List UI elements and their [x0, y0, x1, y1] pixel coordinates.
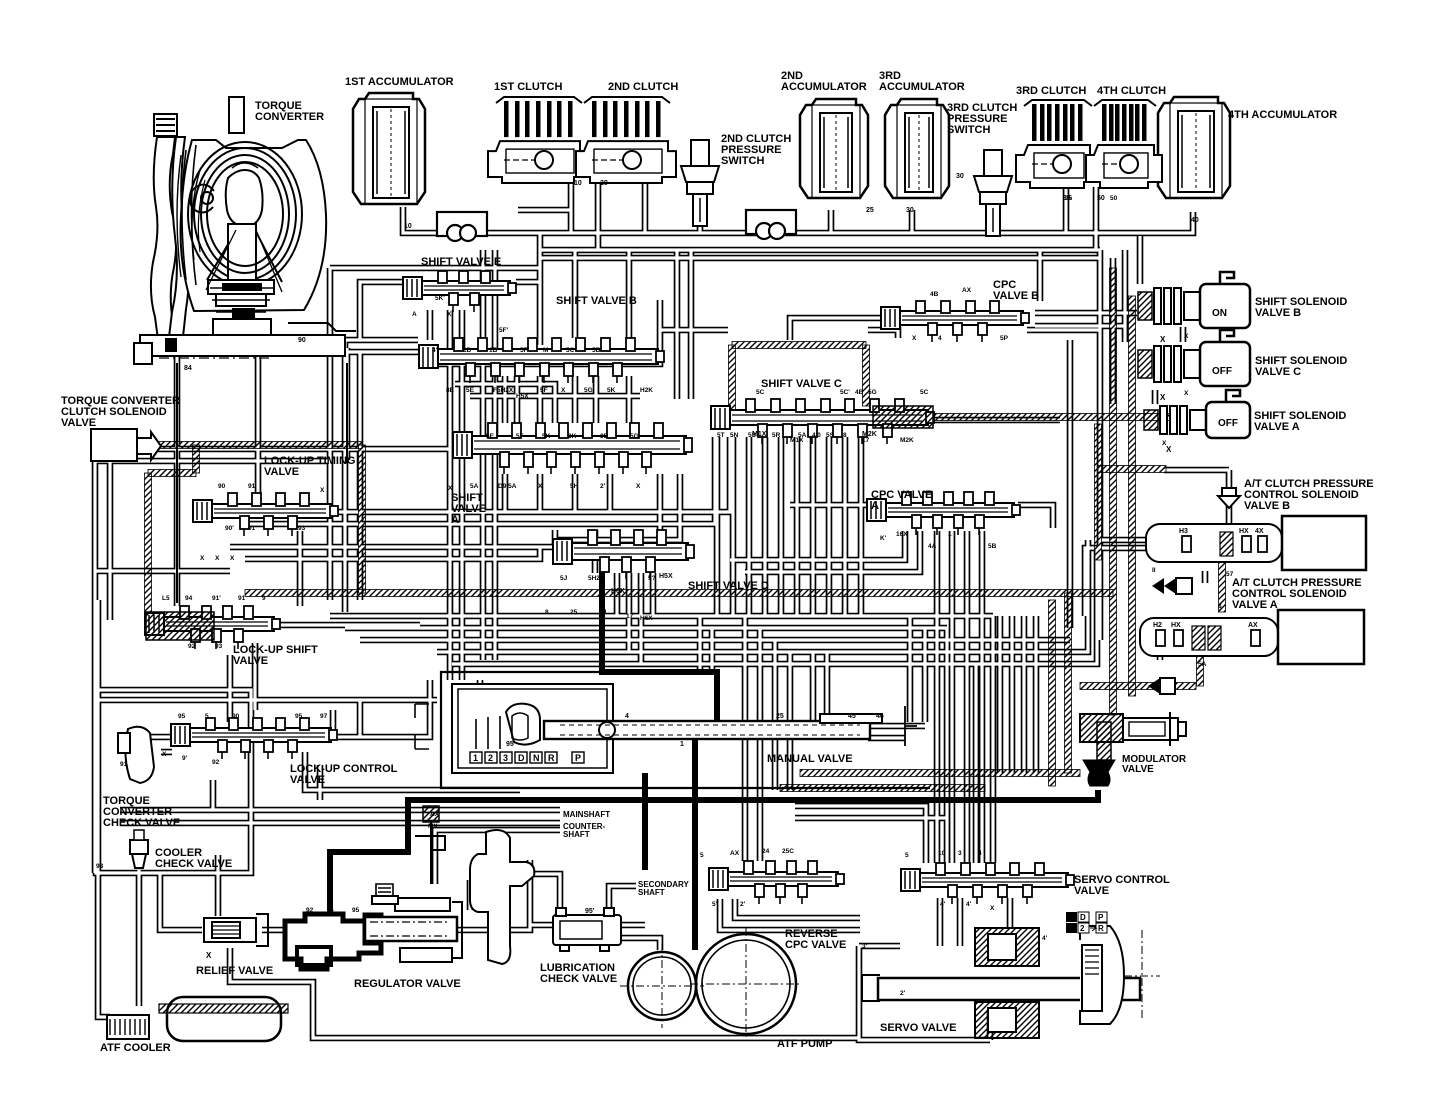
svg-text:R: R	[1098, 924, 1104, 933]
svg-text:25: 25	[776, 713, 784, 720]
svg-text:5N: 5N	[730, 432, 739, 439]
svg-text:ON: ON	[1212, 308, 1227, 319]
svg-text:AX: AX	[430, 811, 440, 818]
svg-text:5C: 5C	[920, 389, 929, 396]
svg-text:AX: AX	[1248, 622, 1258, 629]
svg-text:2': 2'	[740, 901, 746, 908]
svg-text:25C: 25C	[782, 848, 794, 855]
svg-text:2: 2	[488, 753, 493, 763]
svg-text:2': 2'	[900, 990, 906, 997]
svg-text:5R: 5R	[772, 432, 781, 439]
svg-text:2: 2	[1080, 924, 1085, 933]
svg-text:5F: 5F	[516, 433, 524, 440]
svg-text:SHIFT VALVE E: SHIFT VALVE E	[421, 256, 501, 268]
svg-text:5H: 5H	[570, 483, 579, 490]
svg-text:40: 40	[1191, 217, 1199, 224]
svg-text:8: 8	[1218, 603, 1222, 610]
svg-text:4B: 4B	[930, 291, 939, 298]
svg-text:CHECK VALVE: CHECK VALVE	[540, 973, 617, 985]
svg-text:41: 41	[600, 609, 608, 616]
svg-text:84: 84	[184, 365, 192, 372]
svg-text:35: 35	[1063, 195, 1071, 202]
svg-text:3: 3	[958, 850, 962, 857]
svg-text:5: 5	[205, 713, 209, 720]
svg-text:57: 57	[1226, 571, 1234, 578]
svg-text:5K': 5K'	[435, 295, 445, 302]
svg-text:1D: 1D	[463, 347, 472, 354]
svg-text:X: X	[200, 555, 205, 562]
svg-text:1: 1	[948, 531, 952, 538]
svg-text:2: 2	[1068, 913, 1073, 922]
svg-text:X: X	[162, 751, 167, 758]
svg-text:4A: 4A	[928, 543, 937, 550]
svg-text:17: 17	[862, 437, 870, 444]
svg-text:D: D	[1080, 913, 1086, 922]
svg-text:5F': 5F'	[520, 347, 530, 354]
svg-text:OFF: OFF	[1212, 366, 1232, 377]
svg-text:D9 5A: D9 5A	[498, 483, 517, 490]
svg-text:D: D	[518, 753, 525, 763]
svg-text:3': 3'	[862, 943, 868, 950]
svg-text:1: 1	[1068, 924, 1073, 933]
svg-text:5': 5'	[712, 901, 718, 908]
svg-text:X: X	[1162, 440, 1167, 447]
svg-text:VALVE: VALVE	[233, 655, 268, 667]
svg-text:45: 45	[848, 713, 856, 720]
svg-text:4': 4'	[940, 901, 946, 908]
svg-text:OFF: OFF	[1218, 418, 1238, 429]
svg-text:M: M	[543, 347, 548, 354]
svg-text:93: 93	[96, 863, 104, 870]
svg-text:H6X: H6X	[611, 588, 625, 595]
svg-text:H6X: H6X	[640, 615, 653, 622]
svg-text:VALVE: VALVE	[264, 466, 299, 478]
svg-text:95: 95	[352, 907, 360, 914]
svg-text:4TH CLUTCH: 4TH CLUTCH	[1097, 85, 1166, 97]
svg-text:93: 93	[298, 525, 306, 532]
svg-text:5: 5	[330, 907, 334, 914]
svg-text:MAINSHAFT: MAINSHAFT	[563, 810, 610, 819]
svg-text:9': 9'	[182, 755, 188, 762]
svg-text:5C: 5C	[566, 347, 575, 354]
svg-text:H2: H2	[1153, 622, 1162, 629]
svg-text:X: X	[215, 555, 220, 562]
svg-text:94: 94	[185, 595, 193, 602]
svg-text:X: X	[990, 905, 995, 912]
svg-text:SHAFT: SHAFT	[563, 830, 590, 839]
svg-text:25: 25	[866, 207, 874, 214]
svg-text:4: 4	[625, 713, 629, 720]
svg-text:10: 10	[574, 180, 582, 187]
svg-text:97: 97	[320, 713, 328, 720]
svg-text:ATF COOLER: ATF COOLER	[100, 1042, 171, 1054]
svg-text:4B: 4B	[855, 389, 864, 396]
svg-text:5A: 5A	[470, 483, 479, 490]
svg-text:SHAFT: SHAFT	[638, 888, 665, 897]
svg-text:M2K: M2K	[900, 437, 914, 444]
svg-text:SHIFT VALVE C: SHIFT VALVE C	[761, 378, 842, 390]
svg-text:8: 8	[545, 609, 549, 616]
svg-text:93: 93	[215, 643, 223, 650]
svg-text:4': 4'	[966, 901, 972, 908]
svg-text:46: 46	[876, 713, 884, 720]
svg-text:50: 50	[1110, 195, 1118, 202]
svg-text:VALVE B: VALVE B	[993, 290, 1039, 302]
svg-text:H5X: H5X	[516, 393, 529, 400]
svg-text:5G: 5G	[584, 387, 593, 394]
svg-text:4': 4'	[1042, 935, 1048, 942]
svg-text:5B: 5B	[988, 543, 997, 550]
svg-text:VALVE: VALVE	[1122, 764, 1154, 775]
svg-text:M2K: M2K	[862, 431, 877, 438]
svg-text:95: 95	[178, 713, 186, 720]
svg-text:N: N	[533, 753, 540, 763]
svg-text:16X: 16X	[896, 531, 908, 538]
svg-text:X: X	[1184, 390, 1189, 397]
svg-text:X: X	[538, 483, 543, 490]
svg-text:X: X	[448, 485, 453, 492]
svg-text:24: 24	[762, 848, 770, 855]
svg-text:X: X	[1184, 333, 1189, 340]
svg-text:H5X: H5X	[659, 573, 673, 580]
svg-text:3D: 3D	[600, 433, 609, 440]
svg-text:90: 90	[218, 483, 226, 490]
svg-text:SERVO VALVE: SERVO VALVE	[880, 1022, 956, 1034]
svg-text:L5: L5	[162, 595, 170, 602]
svg-text:5C: 5C	[756, 389, 765, 396]
svg-text:CHECK VALVE: CHECK VALVE	[103, 817, 180, 829]
svg-text:3: 3	[503, 753, 508, 763]
svg-text:CPC VALVE: CPC VALVE	[871, 489, 932, 501]
svg-text:90': 90'	[225, 525, 234, 532]
svg-text:ATF PUMP: ATF PUMP	[777, 1038, 832, 1050]
svg-text:AX: AX	[962, 287, 972, 294]
svg-text:91': 91'	[248, 525, 257, 532]
svg-text:91: 91	[238, 595, 246, 602]
svg-text:X: X	[1160, 393, 1166, 402]
svg-text:VALVE: VALVE	[290, 774, 325, 786]
svg-text:5A: 5A	[798, 432, 807, 439]
svg-text:M1X: M1X	[752, 431, 767, 438]
svg-text:91': 91'	[212, 595, 221, 602]
svg-text:4': 4'	[432, 347, 438, 354]
svg-text:5A: 5A	[1198, 661, 1207, 668]
svg-text:17: 17	[626, 613, 634, 620]
svg-text:P: P	[575, 753, 581, 763]
svg-text:VALVE C: VALVE C	[1255, 366, 1301, 378]
svg-text:91: 91	[120, 761, 128, 768]
svg-text:CONVERTER: CONVERTER	[255, 111, 324, 123]
svg-text:REGULATOR VALVE: REGULATOR VALVE	[354, 978, 461, 990]
svg-text:9: 9	[262, 595, 266, 602]
svg-text:1ST ACCUMULATOR: 1ST ACCUMULATOR	[345, 76, 454, 88]
svg-text:X: X	[230, 555, 235, 562]
svg-text:ACCUMULATOR: ACCUMULATOR	[879, 81, 965, 93]
svg-text:HX: HX	[1171, 622, 1181, 629]
svg-text:4TH ACCUMULATOR: 4TH ACCUMULATOR	[1228, 109, 1337, 121]
svg-text:5E: 5E	[466, 387, 475, 394]
svg-text:VALVE: VALVE	[61, 417, 96, 429]
svg-text:50: 50	[1097, 195, 1105, 202]
svg-text:1: 1	[473, 753, 478, 763]
svg-text:90: 90	[298, 337, 306, 344]
svg-text:SHIFT VALVE D: SHIFT VALVE D	[688, 580, 769, 592]
svg-text:VALVE: VALVE	[1074, 885, 1109, 897]
svg-text:5G: 5G	[630, 433, 639, 440]
svg-text:VALVE B: VALVE B	[1244, 500, 1290, 512]
svg-text:5K: 5K	[607, 387, 616, 394]
svg-text:ACCUMULATOR: ACCUMULATOR	[781, 81, 867, 93]
svg-text:CPC VALVE: CPC VALVE	[785, 939, 846, 951]
svg-text:2K: 2K	[568, 433, 577, 440]
svg-text:10: 10	[404, 223, 412, 230]
svg-text:92: 92	[306, 907, 314, 914]
svg-text:R: R	[548, 753, 555, 763]
svg-text:92: 92	[212, 759, 220, 766]
svg-text:F5H2X: F5H2X	[493, 387, 514, 394]
svg-text:92: 92	[188, 643, 196, 650]
svg-text:CHECK VALVE: CHECK VALVE	[155, 858, 232, 870]
svg-text:20: 20	[600, 180, 608, 187]
svg-text:5E: 5E	[486, 433, 495, 440]
svg-text:4'0: 4'0	[812, 432, 821, 439]
svg-text:5H2: 5H2	[588, 575, 600, 582]
svg-text:VALVE B: VALVE B	[1255, 307, 1301, 319]
svg-text:5F': 5F'	[499, 327, 509, 334]
svg-text:5C': 5C'	[840, 389, 850, 396]
svg-text:5T: 5T	[717, 432, 725, 439]
svg-text:95': 95'	[506, 741, 516, 748]
svg-text:X: X	[561, 387, 566, 394]
svg-text:X: X	[447, 311, 452, 318]
svg-text:1: 1	[680, 741, 684, 748]
svg-text:5S: 5S	[826, 432, 835, 439]
svg-text:X: X	[912, 335, 917, 342]
svg-text:5?: 5?	[648, 575, 656, 582]
svg-text:30: 30	[956, 173, 964, 180]
svg-text:1ST CLUTCH: 1ST CLUTCH	[494, 81, 563, 93]
svg-text:A: A	[412, 311, 417, 318]
svg-text:MX: MX	[428, 823, 438, 830]
svg-text:A: A	[871, 500, 879, 512]
svg-text:5: 5	[905, 852, 909, 859]
svg-text:5P: 5P	[1000, 335, 1009, 342]
svg-text:X: X	[636, 483, 641, 490]
svg-text:A: A	[451, 514, 459, 526]
svg-text:5K: 5K	[542, 433, 551, 440]
svg-text:AX: AX	[730, 850, 740, 857]
svg-text:P: P	[1098, 913, 1104, 922]
svg-text:1B: 1B	[489, 347, 498, 354]
svg-text:25: 25	[570, 609, 578, 616]
svg-text:2': 2'	[600, 483, 606, 490]
svg-text:VALVE A: VALVE A	[1254, 421, 1300, 433]
svg-text:5F: 5F	[540, 387, 548, 394]
svg-text:91: 91	[248, 483, 256, 490]
svg-text:95: 95	[295, 713, 303, 720]
svg-text:90: 90	[232, 713, 240, 720]
svg-text:3RD CLUTCH: 3RD CLUTCH	[1016, 85, 1086, 97]
svg-text:X: X	[1166, 445, 1172, 454]
svg-text:30: 30	[906, 207, 914, 214]
svg-text:MANUAL VALVE: MANUAL VALVE	[767, 753, 853, 765]
svg-text:4: 4	[938, 335, 942, 342]
svg-text:X: X	[320, 487, 325, 494]
svg-text:H3: H3	[1179, 528, 1188, 535]
svg-text:SWITCH: SWITCH	[721, 155, 764, 167]
svg-text:2ND CLUTCH: 2ND CLUTCH	[608, 81, 678, 93]
svg-text:X: X	[206, 951, 212, 960]
svg-text:8E: 8E	[446, 387, 455, 394]
svg-text:4X: 4X	[1255, 528, 1264, 535]
svg-text:X: X	[1160, 335, 1166, 344]
svg-text:5: 5	[700, 852, 704, 859]
svg-text:95': 95'	[585, 908, 595, 915]
svg-text:HX: HX	[1239, 528, 1249, 535]
svg-text:II: II	[1152, 567, 1156, 574]
svg-text:H2K: H2K	[640, 387, 653, 394]
svg-text:5J: 5J	[560, 575, 568, 582]
svg-text:SHIFT VALVE B: SHIFT VALVE B	[556, 295, 637, 307]
svg-text:10: 10	[938, 850, 946, 857]
svg-text:4: 4	[978, 850, 982, 857]
svg-text:RELIEF VALVE: RELIEF VALVE	[196, 965, 273, 977]
svg-text:5B: 5B	[592, 347, 601, 354]
svg-text:VALVE A: VALVE A	[1232, 599, 1278, 611]
svg-text:8: 8	[843, 432, 847, 439]
svg-text:SWITCH: SWITCH	[947, 124, 990, 136]
svg-text:5G: 5G	[868, 389, 877, 396]
svg-text:K': K'	[880, 535, 887, 542]
